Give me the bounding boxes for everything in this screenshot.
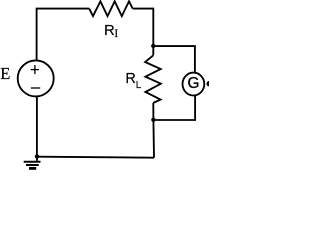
- junction node B dot: [151, 118, 155, 122]
- wire node B down to bottom-right corner: [152, 120, 155, 158]
- ground symbol: [24, 156, 41, 168]
- resistor R_L: [145, 55, 161, 103]
- voltage source E circle: [18, 60, 54, 96]
- wire node A right to galvanometer top: [153, 46, 195, 73]
- wire from source top up to top-left corner and right to R_I: [37, 9, 90, 61]
- svg-text:R: R: [125, 71, 135, 87]
- minus sign inside source: [31, 87, 40, 89]
- svg-text:E: E: [0, 64, 10, 83]
- wire R_L bottom to node B: [152, 103, 154, 120]
- plus sign inside source: [31, 65, 39, 74]
- svg-text:I: I: [114, 26, 118, 40]
- junction node A dot: [151, 44, 155, 48]
- svg-text:L: L: [136, 80, 142, 91]
- wire node A to R_L top: [152, 46, 154, 55]
- svg-text:R: R: [104, 23, 115, 39]
- junction ground node dot: [35, 154, 39, 158]
- wire galvanometer bottom to node B: [153, 95, 195, 120]
- wire from R_I to top-right corner and down to node A: [133, 9, 154, 46]
- clipped dot at right image edge: [207, 81, 213, 87]
- galvanometer G: [183, 73, 205, 96]
- bottom wire to ground junction: [37, 157, 154, 158]
- resistor R_I: [89, 1, 133, 16]
- wire bottom-left junction up to source bottom: [36, 96, 38, 156]
- svg-text:G: G: [188, 75, 200, 92]
